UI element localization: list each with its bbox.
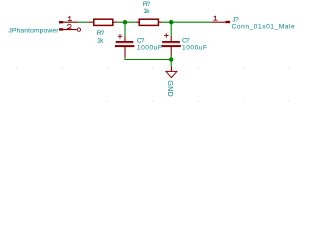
svg-text:C?: C? bbox=[182, 38, 190, 45]
svg-text:1000uF: 1000uF bbox=[182, 45, 207, 52]
svg-text:C?: C? bbox=[137, 38, 145, 45]
svg-text:R?: R? bbox=[143, 1, 151, 8]
svg-text:1000uF: 1000uF bbox=[137, 45, 162, 52]
svg-text:1k: 1k bbox=[97, 38, 104, 45]
svg-text:GND: GND bbox=[166, 80, 175, 96]
svg-text:Conn_01x01_Male: Conn_01x01_Male bbox=[232, 23, 295, 30]
svg-text:JPhantompower: JPhantompower bbox=[8, 27, 59, 34]
svg-text:R?: R? bbox=[97, 30, 105, 37]
svg-text:1k: 1k bbox=[143, 8, 150, 15]
